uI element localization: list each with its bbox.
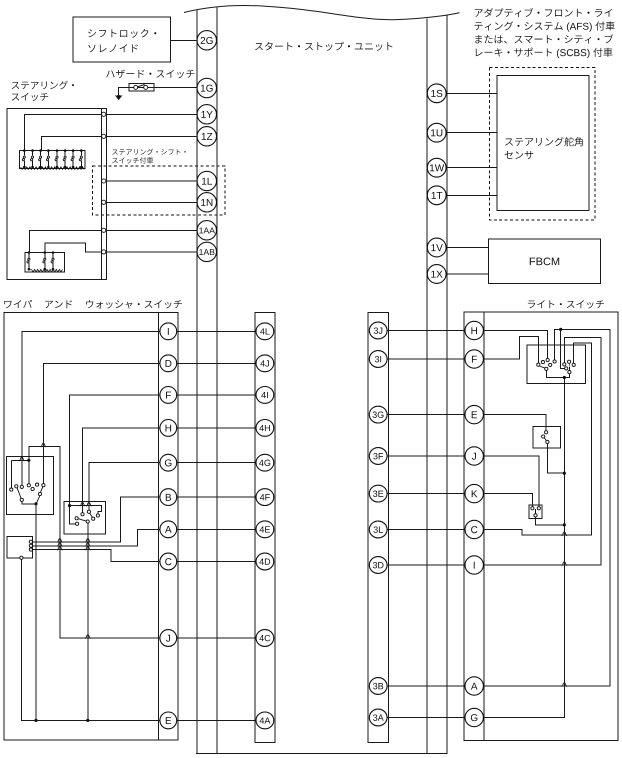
wire 1V to FBCM bbox=[446, 247, 488, 249]
dashed box AFS option bbox=[490, 67, 596, 220]
wire 1S to sensor bbox=[446, 92, 497, 94]
wire hop at (59.8,545.8) bbox=[57, 543, 62, 547]
connector 1AA on left rail bbox=[197, 221, 216, 240]
wire B to washer box C pin1 bbox=[31, 497, 168, 542]
wire I to 4L bbox=[168, 330, 265, 332]
connector D wiper switch bbox=[160, 355, 177, 372]
label steering switch bbox=[12, 82, 20, 89]
junction dot box B wiper on E wire bbox=[86, 719, 89, 722]
wire dimmer box E out bbox=[547, 444, 564, 474]
wire 1N pin to rail bbox=[104, 201, 197, 203]
connector G light switch bbox=[465, 708, 483, 726]
wire F to 4I bbox=[168, 394, 265, 396]
steering box pin at y=181 bbox=[102, 179, 106, 183]
connector F wiper switch bbox=[160, 387, 177, 404]
wiper selector switch box A bbox=[6, 456, 53, 514]
wire E to 4A bbox=[168, 719, 265, 721]
label hazard switch bbox=[106, 71, 114, 78]
connector 4E unit bbox=[256, 521, 274, 538]
wire 1Y pin to rail bbox=[104, 113, 197, 115]
connector 1S on right rail bbox=[427, 84, 446, 103]
connector 1L on left rail bbox=[197, 171, 216, 190]
wire J to selector box A bbox=[29, 446, 169, 638]
label FBCM bbox=[530, 257, 559, 265]
connector 3I unit bbox=[369, 351, 387, 368]
connector 1G on left rail bbox=[197, 78, 216, 97]
connector 1T on right rail bbox=[427, 186, 446, 205]
steering switch resistor ladder pack bbox=[20, 150, 85, 168]
connector 3F unit bbox=[369, 448, 387, 465]
connector 4L unit bbox=[256, 323, 274, 340]
wire hop at (87.8,638) bbox=[85, 635, 90, 639]
wiper selector switch box B bbox=[64, 501, 105, 534]
dimmer switch box E bbox=[533, 426, 561, 448]
wire 3B to A bbox=[378, 685, 474, 687]
wire A-net branch bbox=[561, 329, 565, 368]
connector A light switch bbox=[465, 677, 483, 695]
connector G wiper switch bbox=[160, 454, 177, 471]
start-stop unit right rail outer line bbox=[446, 15, 448, 754]
wire 3I to F bbox=[378, 358, 474, 360]
wire B to 4F bbox=[168, 496, 265, 498]
wire 3A to G bbox=[378, 717, 474, 719]
washer switch box C bbox=[7, 537, 33, 558]
connector 1U on right rail bbox=[427, 123, 446, 142]
connector 3L unit bbox=[369, 521, 387, 538]
connector H light switch bbox=[465, 321, 483, 339]
connector 1N on left rail bbox=[197, 193, 216, 212]
connector J light switch bbox=[465, 447, 483, 465]
connector A wiper switch bbox=[160, 521, 177, 538]
connector 4G unit bbox=[256, 454, 274, 471]
wire G to 4G bbox=[168, 462, 265, 464]
wire 3E to K bbox=[378, 493, 474, 495]
start-stop unit left rail inner line bbox=[216, 8, 218, 754]
wire passing box F out bbox=[536, 517, 565, 525]
wire H to light switch box D bbox=[474, 331, 547, 359]
connector strip 4x bbox=[255, 313, 275, 743]
wire E to dimmer box E bbox=[474, 415, 546, 431]
junction dot A-net bbox=[559, 328, 562, 331]
wire C to washer box C pin3 bbox=[31, 550, 168, 562]
ground symbol bbox=[115, 95, 122, 99]
wire box A common to E bbox=[35, 504, 37, 721]
wire hop at (564.3,686) bbox=[562, 683, 567, 687]
connector 3E unit bbox=[369, 485, 387, 502]
wire hop at (564.3,565) bbox=[562, 562, 567, 566]
connector J wiper switch bbox=[160, 630, 177, 647]
wire hop at (43.4,446.4) bbox=[41, 443, 46, 447]
FBCM box bbox=[488, 239, 600, 283]
connector C wiper switch bbox=[160, 553, 177, 570]
light switch box D bbox=[527, 345, 585, 383]
connector 3D unit bbox=[369, 557, 387, 574]
connector 4I unit bbox=[256, 387, 274, 404]
connector 3G unit bbox=[369, 406, 387, 423]
connector K light switch bbox=[465, 484, 483, 502]
connector 1X on right rail bbox=[427, 265, 446, 284]
hazard switch SW1 bbox=[129, 84, 154, 92]
wire D to selector box A bbox=[43, 363, 168, 483]
wire hop at (21.8,460.3) bbox=[19, 457, 24, 461]
wire A-net top bbox=[474, 329, 610, 686]
wire A to washer box C pin2 bbox=[31, 529, 168, 546]
wire H to selector box B bbox=[83, 428, 169, 513]
wire C to 4D bbox=[168, 561, 265, 563]
wire E common return bbox=[21, 559, 168, 720]
connector 3J unit bbox=[369, 322, 387, 339]
steering angle sensor box bbox=[497, 75, 589, 210]
wire hop at (87.8,545.8) bbox=[85, 543, 90, 547]
connector strip 3x bbox=[368, 313, 388, 743]
steering box pin at y=114.3 bbox=[102, 112, 106, 116]
wire 1AB pin to rail bbox=[104, 251, 197, 253]
connector 3A unit bbox=[369, 709, 387, 726]
junction dot box A common on E wire bbox=[34, 719, 37, 722]
connector 1Y on left rail bbox=[197, 105, 216, 124]
wire D to 4J bbox=[168, 362, 265, 364]
wire hop at (59.8,541.8) bbox=[57, 539, 62, 543]
dashed box steering-shift-switch option bbox=[93, 166, 226, 215]
connector 1AB on left rail bbox=[197, 242, 216, 261]
wire G-net from box D bbox=[474, 378, 564, 718]
wire 3D to I bbox=[378, 564, 474, 566]
label AFS/SCBS note bbox=[475, 9, 483, 17]
connector 3B unit bbox=[369, 678, 387, 695]
wire J to passing box F bbox=[474, 456, 539, 507]
connector I light switch bbox=[465, 556, 483, 574]
wire 1Z pin to rail bbox=[104, 135, 197, 137]
start-stop unit right rail inner line bbox=[426, 18, 428, 753]
connector 4A unit bbox=[256, 712, 274, 729]
wire 1T to sensor bbox=[446, 194, 497, 196]
wire H to 4H bbox=[168, 427, 265, 429]
connector 4C unit bbox=[256, 630, 274, 647]
wire 1AB to lower switch pack bbox=[45, 243, 102, 252]
steering box pin at y=251.9 bbox=[102, 250, 106, 254]
wire 1L pin to rail bbox=[104, 180, 197, 182]
start-stop unit top wavy boundary bbox=[184, 6, 460, 20]
label wiper and washer switch bbox=[4, 301, 11, 308]
wire hop at (87.8,541.8) bbox=[85, 539, 90, 543]
wire 3F to J bbox=[378, 455, 474, 457]
connector 4D unit bbox=[256, 553, 274, 570]
connector 4J unit bbox=[256, 355, 274, 372]
wire hazard switch to 1G bbox=[129, 86, 197, 88]
wire hop at (87.8,549.6) bbox=[85, 546, 90, 550]
wire 1AA to lower switch pack bbox=[30, 230, 102, 252]
connector H wiper switch bbox=[160, 420, 177, 437]
wire 1Z to resistor pack bbox=[41, 136, 101, 150]
wire 3J to H bbox=[378, 330, 474, 332]
connector E wiper switch bbox=[160, 712, 177, 729]
shift lock solenoid box bbox=[73, 17, 170, 62]
wire hazard switch to ground bbox=[119, 87, 129, 95]
wire I-net bbox=[474, 337, 601, 565]
wire hop at (88.9,505.6) bbox=[86, 502, 91, 506]
steering box pin at y=202.3 bbox=[102, 200, 106, 204]
label shift lock solenoid bbox=[88, 29, 96, 37]
connector C light switch bbox=[465, 520, 483, 538]
wire C-net bbox=[474, 343, 592, 535]
connector B wiper switch bbox=[160, 489, 177, 506]
wire hop at (82.5,505.6) bbox=[80, 502, 85, 506]
junction dot dimmer out on G-net bbox=[563, 472, 566, 475]
wire 1U to sensor bbox=[446, 132, 497, 134]
start-stop unit left rail outer line bbox=[196, 10, 198, 753]
wire 3L to C bbox=[378, 529, 474, 531]
wire A to 4E bbox=[168, 528, 265, 530]
wire shift-lock solenoid to 2G bbox=[170, 39, 197, 41]
connector 1V on right rail bbox=[427, 238, 446, 257]
wire J to 4C bbox=[168, 637, 265, 639]
connector 4F unit bbox=[256, 489, 274, 506]
connector I wiper switch bbox=[160, 323, 177, 340]
steering switch box bbox=[7, 108, 107, 279]
wire box B wiper to E bbox=[87, 523, 89, 720]
start-stop unit bottom boundary bbox=[196, 752, 447, 754]
connector 2G on left rail bbox=[197, 31, 216, 50]
wire F to light switch box D bbox=[474, 337, 538, 363]
wire 3G to E bbox=[378, 414, 474, 416]
wire hop at (564.3,535.2) bbox=[562, 532, 567, 536]
wire K to passing box F bbox=[474, 494, 532, 507]
steering box pin at y=136.3 bbox=[102, 134, 106, 138]
connector F light switch bbox=[465, 350, 483, 368]
wire 1AA pin to rail bbox=[104, 229, 197, 231]
label steering angle sensor bbox=[505, 138, 513, 145]
label start-stop unit bbox=[255, 43, 263, 50]
wire 1Y to resistor pack bbox=[24, 114, 101, 150]
connector 1W on right rail bbox=[427, 158, 446, 177]
connector 1Z on left rail bbox=[197, 127, 216, 146]
passing switch box F bbox=[529, 505, 542, 519]
steering lower switch pack bbox=[25, 252, 64, 271]
steering box pin at y=230.3 bbox=[102, 228, 106, 232]
wire F to selector box B bbox=[70, 395, 169, 506]
label light switch bbox=[528, 301, 535, 309]
junction dot passing out on G-net bbox=[563, 523, 566, 526]
wire G to selector box B bbox=[89, 463, 168, 510]
wire I to selector box A bbox=[22, 331, 169, 485]
label steering shift switch option bbox=[112, 150, 118, 155]
wire 1X to FBCM bbox=[446, 273, 488, 275]
wiper switch outer box bbox=[4, 313, 178, 740]
light switch outer box bbox=[464, 312, 618, 741]
wire hop at (59.8,549.6) bbox=[57, 546, 62, 550]
connector E light switch bbox=[465, 405, 483, 423]
wire 1W to sensor bbox=[446, 167, 497, 169]
connector 4H unit bbox=[256, 420, 274, 437]
